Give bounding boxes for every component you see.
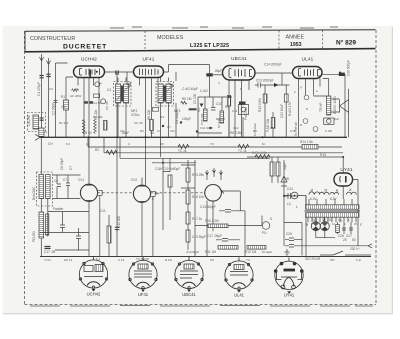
coupling caps C4a C4b	[84, 101, 88, 104]
mechanical link dashed	[98, 192, 134, 194]
above bus labels	[74, 81, 339, 133]
svg-text:R13 0.5M: R13 0.5M	[258, 98, 262, 112]
svg-text:C7: C7	[63, 178, 67, 182]
wire steps	[88, 137, 120, 158]
resistor PAG	[271, 118, 275, 129]
svg-text:UF41: UF41	[138, 292, 149, 297]
svg-text:C7: C7	[157, 129, 161, 133]
svg-text:C17 .05µF: C17 .05µF	[207, 234, 222, 238]
svg-text:T.al: T.al	[356, 258, 361, 262]
svg-text:R.FIL 1.2k: R.FIL 1.2k	[252, 151, 267, 155]
rectifier diode column	[281, 160, 287, 246]
resistor R4	[204, 109, 208, 121]
IF transformer MF1 core	[121, 86, 124, 102]
tube socket UCH42	[79, 257, 107, 289]
svg-text:R2: R2	[95, 148, 99, 152]
svg-text:R17 1k: R17 1k	[192, 217, 203, 221]
power transformer secondary	[306, 213, 360, 218]
capacitor C9	[206, 73, 212, 76]
capacitor C20	[322, 73, 345, 75]
svg-text:C13 500pF: C13 500pF	[200, 205, 216, 209]
wire drum to switch	[221, 191, 245, 257]
svg-text:C23 2000pF: C23 2000pF	[256, 79, 274, 83]
svg-text:TC 1k: TC 1k	[238, 149, 247, 153]
tube UL41	[293, 67, 323, 79]
transformer taps	[308, 217, 356, 222]
svg-text:L1: L1	[44, 130, 48, 134]
wire UY41 top	[343, 157, 358, 246]
left margin rotated labels	[27, 82, 73, 242]
output transformer winding	[327, 96, 331, 115]
tube socket UF41	[129, 257, 157, 289]
wire R22	[108, 215, 110, 257]
oscillator coil primary	[39, 175, 44, 199]
junction dots mid	[162, 125, 164, 127]
resistor R15	[186, 168, 190, 182]
ground symbol	[285, 249, 290, 256]
wire UF41 pins down	[140, 78, 159, 186]
svg-text:M.12µF: M.12µF	[262, 250, 272, 254]
svg-text:C11 40pF: C11 40pF	[200, 126, 213, 130]
wire output transformer	[314, 79, 340, 113]
electrolytic capacitors column	[152, 158, 196, 230]
B minus bus wire	[40, 256, 371, 258]
svg-text:PO-GO: PO-GO	[32, 231, 36, 242]
svg-text:R4: R4	[160, 115, 164, 119]
detector network wires	[198, 97, 232, 137]
svg-text:C12: C12	[233, 126, 239, 130]
svg-text:AC.4FW: AC.4FW	[70, 94, 82, 98]
svg-text:C6: C6	[120, 129, 124, 133]
svg-text:C20 500pF: C20 500pF	[347, 60, 351, 76]
svg-text:C.HP: C.HP	[325, 129, 332, 133]
B plus resistor row	[247, 155, 343, 159]
arrow junction	[274, 83, 279, 87]
resistor R20	[270, 162, 274, 176]
wire interstage UF41-UBC41	[164, 65, 210, 138]
svg-text:R9: R9	[253, 129, 257, 133]
svg-text:C11: C11	[100, 209, 106, 213]
tube UY41	[334, 173, 353, 186]
svg-text:UF41: UF41	[142, 57, 154, 62]
small value labels	[61, 60, 351, 136]
grid resistor zigzag R2	[82, 120, 85, 134]
svg-text:CONSTRUCTEUR: CONSTRUCTEUR	[30, 36, 75, 42]
resistor R13	[263, 94, 267, 103]
resistor RAG	[284, 94, 288, 102]
svg-text:C11: C11	[232, 109, 238, 113]
svg-text:50µF: 50µF	[283, 163, 287, 170]
svg-text:L: L	[296, 205, 298, 209]
resistor R22 left	[107, 226, 111, 243]
resistor RAG2 zigzag	[181, 101, 187, 104]
capacitor C1	[40, 76, 44, 78]
IF transformer MF2 primary	[158, 84, 163, 103]
tuning gang 2	[133, 185, 150, 202]
svg-text:C3: C3	[49, 87, 53, 91]
earth input arrow	[47, 58, 51, 137]
wire interstage UCH42-UF41	[105, 72, 134, 257]
circled node M	[313, 127, 318, 132]
cathode resistor zigzag R3	[94, 120, 97, 134]
svg-text:R11 1M: R11 1M	[205, 250, 216, 254]
torn top edge dashes	[110, 27, 338, 28]
svg-text:C22 10nF: C22 10nF	[280, 104, 284, 118]
wire grid top UCH42	[84, 88, 99, 138]
AVC line 3	[120, 157, 270, 159]
antenna input arrow	[40, 54, 44, 137]
antenna coil L1	[39, 128, 44, 137]
potentiometer volume	[239, 102, 246, 105]
capacitor C29	[349, 228, 353, 230]
svg-text:R5: R5	[225, 105, 229, 109]
svg-text:220 V~: 220 V~	[350, 247, 360, 251]
svg-text:R7 47k: R7 47k	[217, 118, 221, 128]
resistor R12	[247, 246, 266, 250]
svg-text:25: 25	[343, 238, 347, 242]
tube socket UY41	[274, 258, 304, 295]
svg-text:R.FIL: R.FIL	[165, 258, 173, 262]
resistor R8 cathode	[227, 96, 230, 107]
AVC line 2	[104, 152, 343, 154]
svg-text:F: F	[360, 223, 362, 227]
svg-text:g1: g1	[74, 87, 78, 91]
svg-text:100pF: 100pF	[182, 117, 191, 121]
svg-text:R16 10k: R16 10k	[192, 195, 204, 199]
svg-text:W: W	[286, 177, 289, 181]
svg-text:L325 ET LP325: L325 ET LP325	[190, 43, 229, 49]
wire R13	[264, 85, 266, 137]
wire PAG	[272, 112, 274, 137]
svg-text:47k: 47k	[170, 129, 175, 133]
wire osc section	[53, 175, 81, 199]
svg-text:C8: C8	[150, 131, 154, 135]
svg-text:CV2: CV2	[131, 178, 137, 182]
capacitor C24	[284, 193, 299, 199]
svg-text:472kc: 472kc	[131, 113, 140, 117]
svg-text:R5 1M: R5 1M	[182, 97, 192, 101]
svg-text:C4: C4	[107, 88, 111, 92]
capacitor C28	[342, 228, 346, 230]
svg-text:INT: INT	[330, 258, 335, 262]
loudspeaker	[340, 89, 349, 138]
scale lamps	[309, 192, 320, 195]
svg-text:B.EXC 1200: B.EXC 1200	[333, 96, 337, 114]
wire UBC41 pins	[229, 80, 249, 137]
IFT tuning arrows	[116, 85, 174, 102]
circled node 8	[304, 95, 309, 100]
svg-text:220: 220	[327, 218, 333, 222]
capacitor C3	[40, 118, 44, 120]
svg-text:g2: g2	[128, 81, 132, 85]
svg-text:C5 .05: C5 .05	[105, 101, 109, 110]
resistor R7	[178, 145, 189, 149]
resistor R2	[106, 150, 117, 154]
coil L2	[33, 115, 39, 129]
svg-text:C12 200: C12 200	[117, 216, 121, 228]
padder capacitor C17	[45, 247, 51, 249]
excitation coil box	[324, 118, 334, 124]
wire lamp	[284, 196, 306, 205]
oscillator coil secondary	[46, 175, 51, 199]
svg-text:2M: 2M	[61, 105, 66, 109]
svg-text:TR.HP: TR.HP	[319, 102, 323, 112]
svg-text:SECTEUR: SECTEUR	[305, 257, 321, 261]
svg-text:R15: R15	[320, 153, 326, 157]
svg-text:C6: C6	[54, 179, 58, 183]
svg-text:6,3V: 6,3V	[330, 197, 337, 201]
svg-text:UCH42: UCH42	[87, 292, 101, 297]
svg-text:C17 .05: C17 .05	[44, 250, 55, 254]
resistor R3	[150, 120, 154, 131]
labels under bus	[48, 140, 326, 157]
circled node 10	[303, 119, 308, 124]
capacitor C26	[285, 238, 302, 241]
gang2 trimmer	[151, 191, 160, 256]
resistor R5	[220, 111, 224, 123]
resistor dark bar	[189, 108, 197, 110]
svg-text:C7: C7	[69, 166, 73, 170]
svg-text:UY41: UY41	[340, 167, 353, 172]
svg-text:1953: 1953	[290, 42, 302, 48]
oscillator coil PO-GO secondary	[46, 214, 49, 235]
tube socket UBC41	[175, 257, 203, 289]
svg-text:C.12: C.12	[118, 258, 125, 262]
tuning gang 1	[80, 184, 97, 201]
svg-text:R6 100: R6 100	[147, 109, 151, 120]
wire B+ right side	[344, 74, 346, 137]
tube UCH42	[74, 66, 106, 104]
resistor R9	[238, 145, 249, 149]
svg-text:R12 1M: R12 1M	[245, 250, 257, 254]
pickup PU	[262, 222, 270, 230]
svg-text:Pot 0.5M: Pot 0.5M	[244, 107, 248, 120]
svg-text:C5 50: C5 50	[83, 131, 92, 135]
svg-text:R3: R3	[140, 129, 144, 133]
power area labels	[286, 177, 362, 261]
svg-text:C.AG 40pF: C.AG 40pF	[182, 87, 198, 91]
svg-text:CV1: CV1	[78, 178, 84, 182]
resistor R21	[276, 162, 280, 176]
resistor R19	[168, 175, 172, 187]
wire RAG	[285, 85, 287, 137]
oscillator coil PO-GO	[39, 212, 44, 238]
wire power left	[284, 223, 302, 256]
svg-text:50: 50	[352, 238, 356, 242]
svg-text:6,3: 6,3	[66, 142, 71, 146]
border frame	[25, 30, 377, 305]
padding box	[94, 94, 100, 98]
svg-text:R1 2M: R1 2M	[59, 121, 68, 125]
svg-text:C16: C16	[290, 129, 296, 133]
wire drum down	[207, 201, 213, 257]
wire selector top	[316, 217, 335, 238]
svg-text:C6 .05: C6 .05	[134, 121, 143, 125]
lamp crosses	[311, 189, 352, 192]
capacitor C14	[216, 239, 240, 242]
svg-text:ANNEE: ANNEE	[286, 35, 305, 41]
wire gang2	[141, 178, 143, 257]
oscillator link wire	[48, 212, 89, 219]
svg-text:N° 829: N° 829	[336, 39, 356, 47]
capacitor C23 output coupling	[255, 83, 290, 88]
svg-text:R10 2.2M: R10 2.2M	[205, 219, 219, 223]
IF transformer MF1 secondary	[124, 84, 129, 103]
svg-text:R4: R4	[197, 108, 201, 112]
capacitor C11a	[60, 218, 65, 233]
antenna coil box	[28, 113, 46, 132]
wire UBC41-UL41	[255, 73, 293, 85]
svg-text:UBC41: UBC41	[182, 292, 196, 297]
AGC zigzag	[72, 89, 79, 92]
svg-text:C24: C24	[287, 187, 293, 191]
svg-text:UCH42: UCH42	[81, 57, 97, 62]
IF transformer MF1 box	[114, 82, 132, 107]
series capacitor C4c	[116, 70, 118, 74]
svg-text:R8 0.5M: R8 0.5M	[230, 131, 242, 135]
capacitor C16	[115, 227, 120, 229]
resistor R10	[208, 224, 228, 228]
svg-text:C.AG: C.AG	[200, 89, 208, 93]
oscillator coil box	[37, 172, 53, 206]
filter resistors vertical	[272, 157, 278, 183]
svg-text:LC: LC	[287, 202, 292, 206]
wire MF2 down	[161, 78, 169, 158]
tube UBC41	[223, 66, 256, 81]
wire transformer left	[305, 196, 307, 257]
chassis bus wire	[40, 136, 347, 138]
svg-text:C8 100pF: C8 100pF	[175, 110, 179, 124]
wire gang1	[88, 137, 90, 256]
svg-text:Bob.OSC: Bob.OSC	[32, 186, 36, 200]
resistor R11	[218, 246, 238, 250]
svg-text:UBC41: UBC41	[231, 56, 247, 61]
screen resistor hatched	[103, 121, 107, 131]
svg-text:.05µF: .05µF	[214, 69, 222, 73]
wire UCH42 pins down	[78, 78, 99, 88]
svg-text:R2 22k: R2 22k	[93, 115, 103, 119]
bottom caption dashes	[30, 305, 373, 308]
bottom bus labels	[44, 250, 361, 262]
mains switch	[320, 251, 371, 255]
svg-text:PU: PU	[210, 258, 214, 262]
dial lamp circle	[291, 192, 298, 199]
tube UF41	[134, 66, 164, 78]
svg-text:C25: C25	[286, 232, 292, 236]
wire junction column left of UCH42	[66, 77, 73, 137]
right resistor column wires	[181, 160, 195, 250]
svg-text:R1: R1	[61, 95, 65, 99]
dial drum	[205, 185, 222, 202]
svg-text:R14 1.5k: R14 1.5k	[300, 140, 313, 144]
svg-text:12: 12	[86, 142, 90, 146]
svg-text:S: S	[270, 217, 272, 221]
power transformer core	[305, 210, 361, 211]
svg-text:C4 50: C4 50	[93, 101, 101, 105]
capacitor C12a	[76, 228, 81, 251]
svg-text:C10 100: C10 100	[200, 113, 204, 125]
capacitor C1b	[46, 74, 50, 76]
svg-text:T.CH: T.CH	[44, 258, 51, 262]
gang1 trimmer	[98, 190, 103, 256]
voltage selector 110	[311, 222, 320, 231]
trimmer box TC	[152, 107, 158, 111]
coupling coil between stages	[64, 100, 69, 110]
svg-text:R.AG 47k: R.AG 47k	[288, 102, 292, 116]
resistor R14	[302, 145, 318, 150]
svg-text:C15: C15	[270, 126, 276, 130]
IF transformer MF2 box	[156, 82, 174, 107]
mechanical link dashed 2	[151, 192, 206, 194]
switch network mid wires	[195, 160, 262, 257]
svg-text:110: 110	[312, 218, 317, 222]
svg-text:C6 50pF: C6 50pF	[60, 158, 64, 170]
resistor R18	[186, 230, 190, 242]
svg-text:6,3V: 6,3V	[310, 197, 317, 201]
capacitor C5	[115, 93, 119, 95]
capacitor C13	[219, 210, 245, 213]
svg-text:CADRE: CADRE	[27, 115, 31, 126]
header table frame	[25, 30, 376, 52]
svg-text:UY41: UY41	[284, 293, 295, 298]
dial pointer arrows	[206, 168, 223, 180]
capacitor C2	[54, 101, 58, 103]
tube socket UL41	[225, 258, 253, 290]
lower left horizontals	[40, 233, 89, 251]
svg-text:DUCRETET: DUCRETET	[63, 44, 107, 51]
capacitor C27	[285, 245, 302, 248]
svg-text:C2 50pF: C2 50pF	[52, 103, 56, 115]
svg-text:HP 12: HP 12	[64, 258, 73, 262]
junction dots	[88, 72, 344, 198]
wire vertical to UCH42 grid	[56, 63, 68, 137]
svg-text:C19 50µF: C19 50µF	[186, 250, 199, 254]
volume potentiometer wire	[242, 117, 244, 137]
chassis arrow left	[35, 134, 40, 140]
svg-text:UL41: UL41	[302, 57, 314, 62]
AVC line 1	[88, 146, 342, 148]
svg-text:PU: PU	[262, 231, 267, 235]
resistor R17	[186, 212, 190, 224]
svg-text:CH: CH	[48, 142, 53, 146]
resistor R23	[336, 225, 340, 233]
IF transformer MF2 core	[163, 86, 166, 102]
IF transformer MF2 secondary	[166, 84, 171, 103]
svg-text:C14 2000pF: C14 2000pF	[264, 63, 282, 67]
svg-text:TC 1k: TC 1k	[178, 149, 187, 153]
svg-text:MODELES: MODELES	[157, 35, 184, 41]
svg-text:C18+C19 2x50µF: C18+C19 2x50µF	[155, 167, 180, 171]
diode detector	[200, 104, 204, 108]
power transformer primary	[306, 205, 360, 209]
svg-text:C19 50µF: C19 50µF	[192, 235, 206, 239]
wire osc coils	[41, 137, 48, 256]
scatter labels	[44, 87, 308, 146]
svg-text:UL41: UL41	[234, 293, 245, 298]
svg-text:C10: C10	[216, 102, 222, 106]
transformer tap labels	[306, 218, 357, 226]
svg-text:C9 100: C9 100	[193, 93, 197, 104]
svg-text:R5: R5	[160, 142, 164, 146]
fuse resistor right	[338, 222, 352, 234]
triode section parts UCH42	[72, 89, 108, 134]
svg-text:R15 25k: R15 25k	[192, 173, 204, 177]
svg-text:Padder: Padder	[53, 207, 64, 211]
mains line	[302, 244, 372, 248]
svg-text:C1 470pF: C1 470pF	[37, 82, 41, 96]
resistor R16	[186, 190, 190, 204]
wire MF1 down	[118, 78, 126, 138]
